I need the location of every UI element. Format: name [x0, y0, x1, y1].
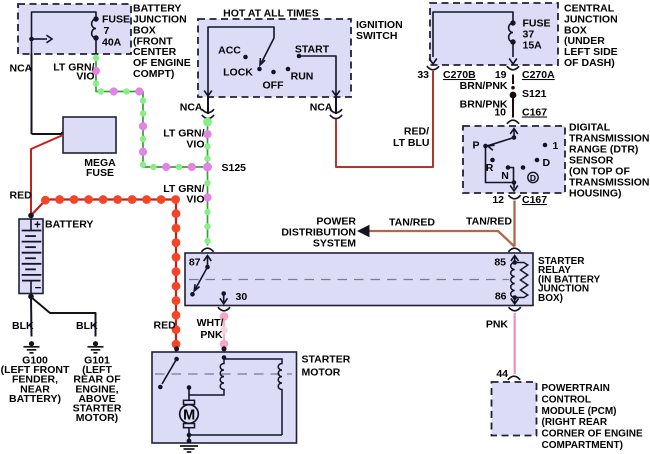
svg-text:OF DASH): OF DASH): [564, 57, 615, 69]
svg-text:BATTERY: BATTERY: [45, 219, 93, 231]
svg-text:LOCK: LOCK: [223, 67, 253, 79]
svg-text:R: R: [486, 162, 494, 174]
svg-text:MOTOR): MOTOR): [76, 412, 118, 424]
svg-text:PNK: PNK: [200, 329, 223, 341]
svg-text:SWITCH: SWITCH: [356, 30, 397, 42]
svg-text:MOTOR: MOTOR: [302, 367, 341, 379]
svg-text:BLK: BLK: [12, 320, 34, 332]
svg-text:P: P: [472, 140, 479, 152]
svg-text:BATTERY): BATTERY): [9, 393, 61, 405]
svg-text:33: 33: [417, 69, 429, 81]
svg-text:7: 7: [104, 25, 110, 37]
svg-text:85: 85: [494, 257, 506, 269]
svg-text:RED/: RED/: [404, 126, 429, 138]
svg-text:S125: S125: [222, 162, 247, 174]
svg-text:15A: 15A: [523, 40, 543, 52]
svg-text:NCA: NCA: [310, 102, 333, 114]
svg-text:(RIGHT REAR: (RIGHT REAR: [542, 417, 608, 428]
svg-text:M: M: [183, 407, 195, 423]
svg-text:TAN/RED: TAN/RED: [466, 216, 512, 228]
svg-text:86: 86: [495, 291, 507, 303]
svg-text:C167: C167: [522, 107, 547, 119]
svg-text:−: −: [35, 283, 42, 295]
svg-text:POWERTRAIN: POWERTRAIN: [542, 383, 610, 394]
svg-text:D: D: [543, 157, 551, 169]
svg-text:BRN/PNK: BRN/PNK: [460, 80, 508, 92]
svg-text:VIO: VIO: [186, 139, 204, 151]
svg-text:TAN/RED: TAN/RED: [389, 217, 435, 229]
svg-text:S121: S121: [522, 88, 547, 100]
svg-text:N: N: [501, 170, 509, 182]
svg-text:PNK: PNK: [486, 319, 509, 331]
svg-text:NCA: NCA: [180, 102, 203, 114]
svg-text:BLK: BLK: [76, 320, 98, 332]
svg-text:12: 12: [492, 194, 504, 206]
svg-text:44: 44: [496, 368, 508, 380]
svg-text:CONTROL: CONTROL: [542, 394, 591, 405]
svg-text:HOUSING): HOUSING): [569, 188, 622, 200]
svg-text:SYSTEM: SYSTEM: [313, 238, 356, 250]
svg-text:COMPARTMENT): COMPARTMENT): [542, 440, 623, 451]
svg-text:D: D: [530, 173, 536, 183]
svg-text:RUN: RUN: [291, 71, 314, 83]
svg-text:CORNER OF ENGINE: CORNER OF ENGINE: [542, 429, 643, 440]
svg-text:C167: C167: [522, 194, 547, 206]
svg-text:OFF: OFF: [263, 80, 285, 92]
svg-text:ACC: ACC: [218, 45, 241, 57]
svg-text:87: 87: [189, 257, 201, 269]
svg-text:RED: RED: [10, 190, 33, 202]
svg-text:30: 30: [236, 291, 248, 303]
svg-text:LT BLU: LT BLU: [393, 137, 430, 149]
svg-text:40A: 40A: [102, 37, 122, 49]
svg-text:HOT AT ALL TIMES: HOT AT ALL TIMES: [223, 8, 319, 20]
svg-text:START: START: [295, 44, 330, 56]
svg-text:C270A: C270A: [522, 69, 555, 81]
svg-text:1: 1: [553, 140, 559, 152]
svg-text:COMPT): COMPT): [133, 68, 174, 80]
svg-text:WHT/: WHT/: [197, 317, 224, 329]
svg-text:BOX): BOX): [538, 293, 563, 304]
svg-text:VIO: VIO: [76, 71, 94, 83]
svg-text:RED: RED: [154, 320, 177, 332]
svg-text:FUSE: FUSE: [102, 14, 130, 26]
svg-text:VIO: VIO: [186, 194, 204, 206]
svg-text:FUSE: FUSE: [86, 167, 114, 179]
svg-text:STARTER: STARTER: [302, 354, 351, 366]
svg-text:10: 10: [494, 107, 506, 119]
svg-text:NCA: NCA: [10, 63, 33, 75]
svg-text:MODULE (PCM): MODULE (PCM): [542, 406, 617, 417]
